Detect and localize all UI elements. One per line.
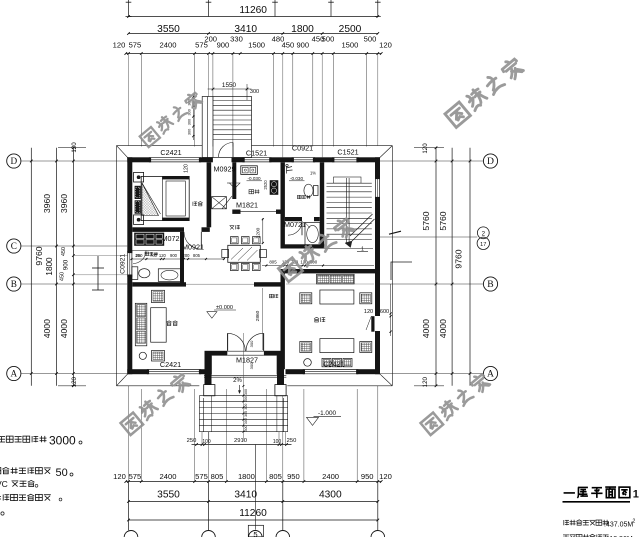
title area note	[563, 520, 565, 525]
window C1521 kitchen top	[244, 157, 271, 159]
svg-text:120: 120	[183, 164, 189, 173]
svg-text:2: 2	[482, 230, 486, 237]
bathroom1 sink	[158, 269, 182, 282]
rear stair dimension 1550 300	[208, 88, 252, 90]
bottom dimension row 3550 3410 4300	[129, 501, 378, 503]
kitchen left wall	[232, 162, 236, 199]
svg-text:300: 300	[244, 411, 248, 417]
svg-text:300: 300	[188, 109, 192, 115]
svg-text:A: A	[487, 369, 494, 380]
bedroom right wall	[207, 162, 212, 227]
vestibule front wall	[212, 351, 228, 356]
svg-text:1800: 1800	[238, 472, 255, 481]
left axis bubbles D C B A	[7, 154, 21, 168]
right wall jog line	[391, 262, 412, 280]
dining chair right	[260, 250, 267, 258]
eave corner diagonals	[117, 146, 130, 160]
nook bottom wall	[281, 244, 325, 248]
eave outline left	[116, 146, 118, 386]
svg-text:4000: 4000	[421, 319, 431, 338]
door M1827 double arcs	[227, 333, 229, 351]
svg-text:300: 300	[250, 89, 259, 95]
svg-text:450: 450	[136, 253, 144, 258]
svg-text:2400: 2400	[160, 472, 177, 481]
porch right wall	[277, 351, 284, 395]
svg-text:1200: 1200	[256, 227, 262, 238]
svg-text:300: 300	[244, 426, 248, 432]
svg-text:450: 450	[61, 247, 67, 256]
bathroom1 right wall	[180, 232, 184, 283]
svg-text:1%: 1%	[310, 171, 316, 176]
svg-text:4300: 4300	[319, 489, 342, 500]
main staircase landing	[334, 177, 362, 183]
svg-text:300: 300	[249, 340, 254, 347]
svg-text:M0929: M0929	[214, 165, 236, 174]
right exterior wall	[375, 157, 380, 178]
door leaf right wall living room	[371, 316, 374, 332]
bottom dimension row 11260	[129, 519, 378, 521]
bathroom2 left wall on axis3	[281, 162, 285, 248]
rear stair left mini dims	[192, 94, 194, 140]
svg-text:120: 120	[364, 309, 373, 315]
svg-text:C2421: C2421	[160, 148, 181, 157]
living room side circle	[304, 359, 312, 367]
svg-text:C0921: C0921	[119, 254, 126, 274]
svg-text:300: 300	[244, 396, 248, 402]
svg-text:2: 2	[633, 519, 636, 525]
svg-text:575: 575	[195, 472, 208, 481]
rear stair enclosure	[202, 97, 251, 158]
watermark top right	[445, 102, 470, 127]
porch center axis line	[242, 333, 244, 441]
svg-text:B: B	[487, 279, 493, 290]
svg-text:120: 120	[379, 41, 392, 50]
svg-text:250: 250	[287, 438, 297, 444]
bathroom1 top line and door	[131, 250, 184, 252]
svg-text:120: 120	[113, 472, 126, 481]
nightstand bottom	[134, 215, 144, 225]
svg-text:950: 950	[361, 472, 374, 481]
main staircase break line and arrow	[352, 219, 375, 241]
svg-text:1500: 1500	[248, 41, 265, 50]
svg-text:3000: 3000	[49, 433, 76, 447]
svg-text:2520: 2520	[263, 180, 268, 190]
bottom projection lines	[140, 389, 142, 482]
svg-text:805: 805	[193, 253, 201, 258]
right dimension lines	[435, 148, 437, 386]
svg-text:120: 120	[71, 142, 78, 153]
tea room stool	[139, 352, 146, 359]
top exterior wall	[127, 157, 150, 162]
svg-text:600: 600	[380, 309, 389, 315]
svg-text:200: 200	[204, 35, 217, 44]
svg-text:330: 330	[230, 35, 243, 44]
window C0921 left wall	[127, 252, 129, 276]
living room chair2 left	[300, 342, 312, 353]
bathroom2 bottom wall	[285, 217, 302, 221]
bathroom2 right wall on axis4	[320, 162, 324, 248]
svg-text:805: 805	[269, 472, 282, 481]
svg-text:300: 300	[188, 119, 192, 125]
svg-text:3960: 3960	[59, 194, 69, 213]
label tea room	[167, 321, 172, 322]
bathroom1 toilet	[132, 267, 138, 280]
main staircase treads	[327, 186, 372, 188]
bedroom bed	[141, 176, 189, 220]
note line 5 period	[1, 512, 4, 515]
label kitchen	[249, 190, 254, 194]
eave outline bottom	[117, 385, 200, 387]
small hall label	[270, 294, 274, 298]
dining table	[228, 245, 260, 262]
window C1521 top	[333, 157, 357, 159]
bathroom1 label	[145, 252, 149, 255]
window C2421 top	[150, 157, 200, 159]
bathroom2 shower	[287, 166, 293, 174]
svg-text:2910: 2910	[234, 438, 247, 444]
svg-text:700: 700	[150, 253, 158, 258]
svg-text:805: 805	[211, 472, 224, 481]
svg-text:5: 5	[253, 530, 257, 537]
svg-text:120: 120	[379, 472, 392, 481]
main staircase stringer	[345, 178, 347, 244]
top axis stubs	[128, 0, 130, 17]
svg-text:C0921: C0921	[292, 144, 313, 153]
bottom axis lines and bubbles	[128, 482, 130, 531]
label bedroom	[192, 202, 194, 206]
svg-text:3550: 3550	[157, 24, 180, 35]
nightstand top	[134, 172, 144, 182]
svg-text:11260: 11260	[239, 5, 267, 16]
section marker 2/17 right	[380, 236, 477, 238]
svg-text:D: D	[487, 156, 494, 167]
window C2421 bottom living room	[304, 369, 357, 371]
front steps	[199, 395, 287, 397]
title underline	[563, 501, 631, 503]
svg-text:11260: 11260	[239, 508, 267, 519]
svg-text:5760: 5760	[421, 211, 431, 230]
svg-text:200: 200	[183, 253, 191, 258]
svg-text:M1821: M1821	[236, 201, 258, 210]
axis line B through living room	[286, 283, 374, 285]
svg-text:-1.000: -1.000	[318, 410, 337, 417]
svg-text:450: 450	[60, 272, 66, 281]
svg-text:3410: 3410	[234, 24, 257, 35]
svg-text:900: 900	[217, 41, 230, 50]
svg-text:2500: 2500	[339, 24, 362, 35]
dining chairs bottom	[231, 263, 239, 270]
svg-text:300: 300	[188, 129, 192, 135]
svg-text:C1521: C1521	[246, 149, 267, 158]
bottom dimension row small segments	[126, 481, 381, 483]
porch step projection lines	[201, 432, 203, 445]
svg-text:2%: 2%	[233, 378, 242, 384]
svg-text:575: 575	[129, 472, 142, 481]
svg-text:M1827: M1827	[236, 355, 258, 364]
svg-text:C1521: C1521	[337, 147, 358, 156]
svg-text:805: 805	[269, 260, 277, 265]
watermark center	[278, 258, 302, 282]
svg-text:120: 120	[422, 143, 429, 154]
svg-text:120: 120	[159, 253, 167, 258]
svg-text:300: 300	[249, 362, 254, 369]
right axis bubbles D B A	[483, 154, 497, 168]
svg-text:M0721: M0721	[284, 220, 306, 229]
tea room top wall	[132, 282, 186, 286]
top dimension row 11260	[129, 16, 378, 18]
svg-text:300: 300	[244, 389, 248, 395]
living room armchair left	[300, 293, 312, 304]
bedroom dresser	[134, 233, 164, 246]
living room sofa row	[317, 274, 355, 284]
svg-text:4000: 4000	[438, 319, 448, 338]
svg-text:3960: 3960	[42, 194, 52, 213]
svg-text:1550: 1550	[222, 82, 237, 89]
svg-text:900: 900	[296, 41, 309, 50]
top dimension row 3550 3410 1800 2500	[129, 33, 378, 35]
bathroom2 toilet	[304, 184, 313, 197]
svg-text:950: 950	[287, 472, 300, 481]
svg-text:C2421: C2421	[160, 360, 181, 369]
svg-text:A: A	[10, 369, 17, 379]
svg-text:17: 17	[480, 242, 486, 248]
svg-text:5760: 5760	[438, 211, 448, 230]
svg-text:50: 50	[56, 467, 68, 479]
bottom exterior wall	[127, 369, 148, 374]
svg-text:1500: 1500	[341, 41, 358, 50]
left exterior wall	[127, 157, 132, 252]
svg-text:3550: 3550	[157, 489, 180, 500]
vestibule side walls inner faces	[211, 356, 213, 375]
fridge	[212, 197, 227, 209]
left dimension lines	[30, 148, 32, 386]
svg-text:M0921: M0921	[182, 242, 204, 251]
bedroom bottom wall	[132, 227, 184, 232]
door M0721 bathroom2 arc	[288, 221, 302, 235]
top projection lines to building	[140, 54, 142, 147]
svg-text:300: 300	[244, 404, 248, 410]
svg-text:3410: 3410	[234, 489, 257, 500]
svg-text:-0.030: -0.030	[248, 176, 261, 181]
watermark bottom left	[121, 413, 144, 435]
dining chair left	[222, 250, 229, 258]
watermark top left	[140, 127, 160, 147]
tea room sofa	[135, 303, 147, 346]
nook wash basin	[305, 223, 320, 247]
svg-text:480: 480	[272, 35, 285, 44]
top dimension row small segments	[126, 53, 381, 55]
note line 1	[0, 436, 5, 438]
door M0921 arc	[184, 232, 201, 249]
window right wall stair	[374, 178, 376, 198]
svg-text:500: 500	[322, 35, 335, 44]
svg-text:9760: 9760	[454, 249, 464, 268]
svg-text:D: D	[10, 156, 17, 166]
hall interior line	[186, 283, 254, 285]
window C2421 bottom left tea room	[148, 369, 200, 371]
kitchen bottom wall	[232, 210, 240, 214]
title second note partial	[563, 534, 569, 536]
living room table2	[320, 339, 354, 353]
title first floor plan	[564, 487, 575, 499]
svg-text:9760: 9760	[34, 246, 44, 265]
label dining	[230, 224, 235, 226]
note line 2	[0, 468, 1, 474]
svg-text:2400: 2400	[160, 41, 177, 50]
svg-text:1: 1	[633, 489, 639, 501]
living room tv console	[322, 358, 331, 366]
svg-text:2860: 2860	[255, 310, 261, 321]
svg-text:-0.030: -0.030	[290, 176, 303, 181]
svg-text:250: 250	[187, 438, 197, 444]
svg-text:1800: 1800	[291, 24, 314, 35]
svg-text:1800: 1800	[45, 257, 54, 276]
svg-text:C: C	[11, 241, 17, 251]
tea room table	[151, 308, 167, 343]
svg-text:900: 900	[63, 259, 70, 270]
eave outline right	[391, 146, 393, 386]
porch floor edge lines	[204, 374, 286, 376]
living room armchair right	[360, 293, 372, 304]
svg-text:B: B	[11, 279, 17, 289]
kitchen sink	[241, 166, 257, 175]
svg-text:100: 100	[273, 439, 282, 445]
svg-text:VC: VC	[0, 479, 8, 489]
bottom porch dimension row 250 100 2910 100 250	[192, 444, 292, 446]
stair bottom line	[324, 248, 373, 250]
svg-text:120: 120	[113, 41, 126, 50]
svg-text:120: 120	[71, 376, 78, 387]
porch left wall	[205, 351, 212, 395]
hall interior dim line left	[132, 258, 226, 260]
bed pillows	[135, 186, 141, 199]
svg-text:900: 900	[170, 253, 178, 258]
label living room	[314, 317, 319, 318]
rear stair door arc	[219, 143, 234, 158]
left section jog line	[97, 256, 99, 290]
svg-text:4000: 4000	[42, 319, 52, 338]
hall interior dim line right	[262, 265, 374, 267]
svg-text:2400: 2400	[322, 472, 339, 481]
living room chair2 right	[360, 342, 372, 353]
rear stair treads	[213, 99, 252, 101]
svg-text:120: 120	[422, 376, 429, 387]
living room left wall	[281, 269, 285, 369]
tea room chair bottom	[152, 351, 165, 362]
window C0921 top	[293, 157, 314, 159]
svg-text:4000: 4000	[59, 319, 69, 338]
living room coffee table	[320, 290, 354, 304]
dining chairs top	[231, 237, 239, 244]
svg-text:500: 500	[364, 35, 377, 44]
svg-text:575: 575	[129, 41, 142, 50]
bathroom2 label	[298, 195, 302, 198]
svg-text:300: 300	[244, 418, 248, 424]
watermark bottom right	[421, 413, 444, 435]
svg-text::437.05M: :437.05M	[604, 521, 633, 528]
eave outline top	[117, 145, 203, 147]
living room top wall	[285, 269, 302, 273]
tea room chair top	[152, 290, 165, 302]
kitchen stove	[270, 180, 279, 195]
svg-text:100: 100	[202, 439, 211, 445]
